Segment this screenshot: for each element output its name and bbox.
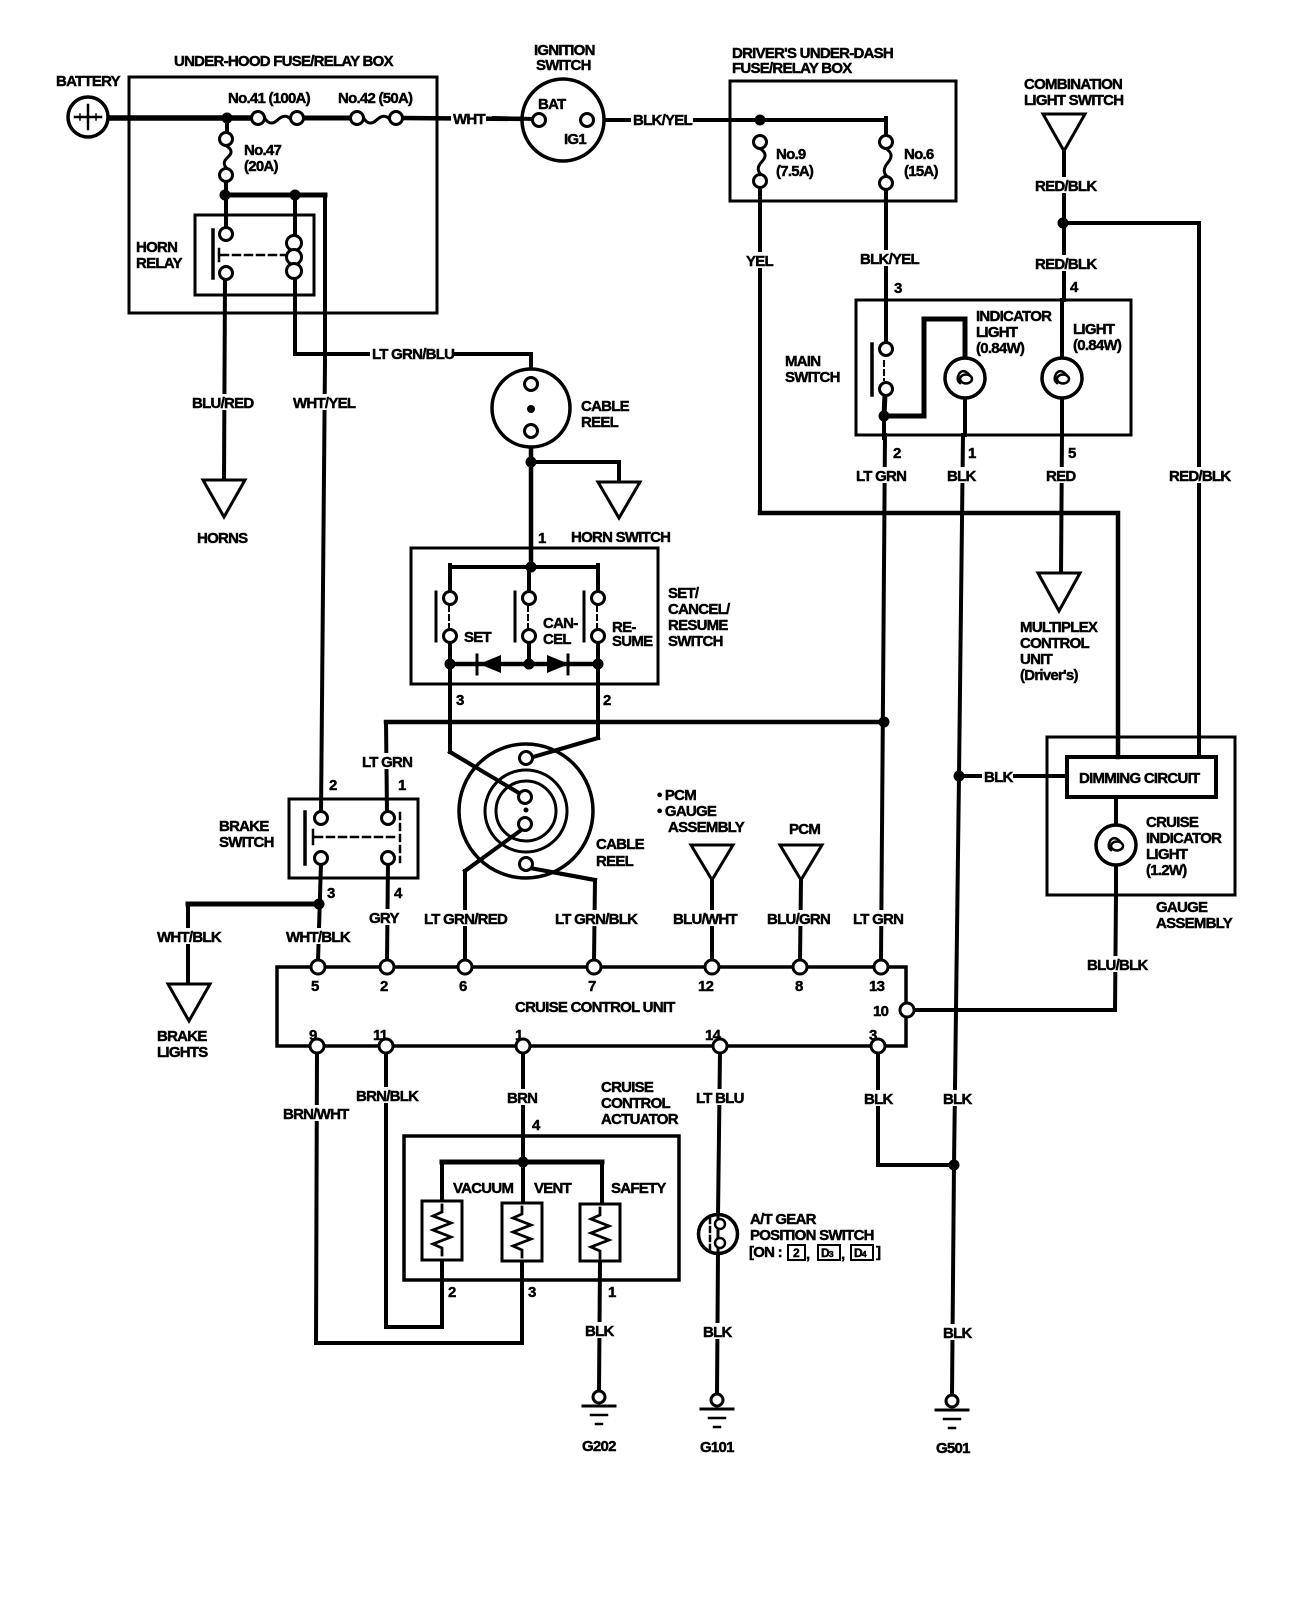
svg-text:GRY: GRY [369, 910, 399, 927]
svg-text:,: , [841, 1246, 845, 1263]
label RED/BLK upper [1033, 177, 1097, 195]
svg-text:3: 3 [869, 1027, 877, 1044]
junction RED/BLK combination switch tap [1058, 218, 1069, 229]
svg-text:BLU/BLK: BLU/BLK [1087, 957, 1148, 974]
wire LT GRN horizontal [386, 720, 884, 725]
svg-text:POSITION SWITCH: POSITION SWITCH [750, 1227, 874, 1244]
wire battery junction down to fuse No.47 [225, 116, 229, 134]
label BAT [538, 96, 566, 113]
svg-text:5: 5 [1068, 445, 1076, 462]
wire light to pin 5 [1060, 397, 1064, 435]
junction SET arrow bar [445, 659, 456, 670]
wire WHT fuse box to ignition BAT [402, 118, 533, 119]
svg-text:BLK: BLK [984, 769, 1013, 786]
label pin 4 main switch [1070, 279, 1079, 296]
svg-text:LT BLU: LT BLU [696, 1090, 744, 1107]
wire A/T gear position switch to G101 [717, 1252, 718, 1395]
label CANCEL/ [668, 601, 731, 618]
svg-text:D3: D3 [821, 1246, 834, 1260]
label RE- [612, 619, 636, 636]
label vacuum pin 2 [448, 1284, 456, 1301]
svg-text:2: 2 [380, 978, 388, 995]
label BRN/WHT [281, 1105, 349, 1123]
fuse No.41 (100A) [252, 112, 304, 125]
label PCM bullet [657, 787, 696, 804]
wire RED/BLK branch to dimming circuit [1063, 223, 1199, 757]
wire WHT/YEL to brake switch pin 2 [321, 195, 325, 815]
wire RED pin 5 to multiplex control unit [1061, 435, 1062, 574]
svg-text:9: 9 [309, 1027, 317, 1044]
RESUME switch contact [584, 592, 605, 643]
svg-text:A/T GEAR: A/T GEAR [750, 1211, 817, 1228]
svg-text:G501: G501 [936, 1440, 970, 1457]
svg-text:(7.5A): (7.5A) [776, 163, 814, 180]
label cruise pin 1 bottom [515, 1027, 523, 1044]
label BRAKE SWITCH [219, 818, 269, 835]
svg-text:4: 4 [394, 885, 403, 902]
wire feed to SAFETY solenoid [600, 1162, 604, 1205]
brake switch contact [305, 812, 400, 865]
svg-text:(0.84W): (0.84W) [976, 340, 1025, 357]
wire YEL to dimming circuit [760, 513, 1118, 757]
label WHT [451, 110, 486, 128]
horn switch connector [598, 482, 640, 518]
wire CANCEL contact to arrow bar [527, 641, 531, 666]
svg-text:UNDER-HOOD FUSE/RELAY BOX: UNDER-HOOD FUSE/RELAY BOX [174, 53, 394, 70]
under-hood fuse/relay box [129, 77, 437, 313]
junction CANCEL arrow bar [524, 659, 535, 670]
ignition switch [494, 79, 604, 161]
svg-text:BRN: BRN [507, 1090, 537, 1107]
wire LT GRN/BLU coil to cable reel [295, 276, 531, 381]
wire WHT/BLK down [186, 904, 190, 985]
wire LT GRN/RED diagonal [465, 828, 524, 871]
svg-text:REEL: REEL [581, 414, 619, 431]
label ACTUATOR [601, 1111, 679, 1128]
label No.42 (50A) [336, 89, 422, 107]
label SWITCH set/cancel [668, 633, 723, 650]
wire bus down to relay contact [224, 195, 228, 229]
wire set/cancel/resume feed bar [450, 565, 598, 569]
label DIMMING CIRCUIT [1079, 770, 1200, 787]
ground G101 [701, 1394, 733, 1427]
svg-text:LIGHT: LIGHT [1146, 846, 1188, 863]
svg-text:SWITCH: SWITCH [785, 369, 840, 386]
wire main switch pin 2 stub [882, 416, 886, 438]
svg-text:SUME: SUME [612, 633, 653, 650]
label RED/BLK right [1167, 467, 1231, 485]
junction BLK dimming circuit tap [954, 771, 965, 782]
svg-text:(1.2W): (1.2W) [1146, 862, 1187, 879]
label CONTROL actuator [601, 1095, 670, 1112]
wire LT GRN/BLK to cruise pin 7 [594, 880, 595, 961]
label POSITION SWITCH [750, 1227, 874, 1244]
label MULTIPLEX [1020, 619, 1098, 636]
cruise control actuator box [404, 1136, 679, 1280]
driver's under-dash fuse/relay box [730, 81, 956, 201]
label No.41 (100A) [226, 89, 318, 107]
label CRUISE actuator [601, 1079, 654, 1096]
brake switch box [289, 799, 418, 878]
label vent pin 3 [528, 1284, 536, 1301]
wire BLK pin 3 to G501 net [878, 1163, 954, 1167]
svg-text:• PCM: • PCM [657, 787, 696, 804]
label brake pin 4 [394, 885, 403, 902]
cruise control unit box [277, 967, 906, 1046]
svg-text:BLK: BLK [864, 1091, 893, 1108]
wire GRY brake switch pin 4 to cruise pin 2 [387, 863, 388, 961]
label BLU/RED [190, 394, 254, 412]
label G101 [700, 1439, 734, 1456]
svg-text:UNIT: UNIT [1020, 651, 1053, 668]
wire BLU/WHT to cruise pin 12 [710, 880, 714, 961]
svg-text:LIGHT SWITCH: LIGHT SWITCH [1024, 92, 1123, 109]
label fuse No.9 [776, 146, 806, 163]
label INDICATOR LIGHT rating [974, 339, 1032, 357]
label horn switch pin 1 [538, 530, 546, 547]
label HORN RELAY 2 [136, 255, 182, 272]
label main switch pin 2 [893, 445, 901, 462]
junction set/cancel/resume feed [526, 562, 537, 573]
label PCM [789, 821, 820, 838]
svg-text:IG1: IG1 [564, 131, 586, 148]
svg-text:WHT/YEL: WHT/YEL [293, 395, 356, 412]
svg-text:WHT/BLK: WHT/BLK [157, 929, 222, 946]
svg-text:12: 12 [698, 978, 714, 995]
horn relay contact [213, 228, 285, 280]
wire YEL fuse No.9 down [758, 187, 762, 513]
label G501 [936, 1440, 970, 1457]
junction WHT/BLK brake lights tap [314, 899, 325, 910]
svg-text:(15A): (15A) [904, 163, 939, 180]
svg-text:CRUISE: CRUISE [601, 1079, 654, 1096]
svg-text:2: 2 [329, 777, 337, 794]
svg-text:BLK/YEL: BLK/YEL [633, 112, 693, 129]
wire RESUME pin 2 diagonal to cable reel [533, 738, 598, 757]
svg-text:ASSEMBLY: ASSEMBLY [1156, 915, 1233, 932]
svg-text:RED/BLK: RED/BLK [1169, 468, 1231, 485]
label cruise pin 7 [588, 978, 596, 995]
label G202 [582, 1438, 616, 1455]
wire BLK cruise pin 3 down [876, 1052, 880, 1165]
label BLK pin 3 [862, 1090, 893, 1108]
svg-text:LT GRN/BLU: LT GRN/BLU [372, 346, 454, 363]
junction main switch contact output [879, 411, 890, 422]
cruise control unit pins [310, 960, 914, 1053]
label LIGHT SWITCH [1024, 92, 1123, 109]
label fuse No.6 [904, 146, 934, 163]
label BRN/BLK [354, 1087, 419, 1105]
set/cancel/resume switch box [411, 548, 658, 684]
label WHT/BLK left [155, 928, 222, 946]
battery [68, 97, 108, 137]
svg-text:LT GRN: LT GRN [853, 911, 903, 928]
label BLK dimming [982, 768, 1013, 786]
svg-text:• GAUGE: • GAUGE [657, 803, 717, 820]
label UNDER-HOOD FUSE/RELAY BOX [172, 52, 394, 70]
label HORN RELAY [136, 239, 177, 256]
svg-text:2: 2 [893, 445, 901, 462]
label INDICATOR [1146, 830, 1222, 847]
cable reel upper [492, 369, 570, 447]
svg-text:2: 2 [448, 1284, 456, 1301]
label LT GRN/BLU [370, 345, 454, 363]
junction BRN actuator feed [518, 1157, 529, 1168]
svg-text:VACUUM: VACUUM [453, 1180, 513, 1197]
svg-text:No.41 (100A): No.41 (100A) [228, 90, 311, 107]
svg-text:BRAKE: BRAKE [157, 1028, 207, 1045]
svg-text:SWITCH: SWITCH [668, 633, 723, 650]
svg-text:2: 2 [603, 692, 611, 709]
svg-text:LT GRN/BLK: LT GRN/BLK [555, 911, 638, 928]
PCM / gauge assembly connector [691, 845, 733, 880]
horn relay box [195, 215, 314, 295]
wire cable reel to horn switch junction [529, 437, 534, 570]
svg-text:INDICATOR: INDICATOR [1146, 830, 1222, 847]
svg-text:RELAY: RELAY [136, 255, 182, 272]
label UNIT multiplex [1020, 651, 1053, 668]
svg-text:No.42 (50A): No.42 (50A) [338, 90, 413, 107]
svg-text:CAN-: CAN- [543, 615, 578, 632]
label cruise pin 2 [380, 978, 388, 995]
label main switch pin 5 [1068, 445, 1076, 462]
svg-text:8: 8 [795, 978, 803, 995]
svg-text:RESUME: RESUME [668, 617, 728, 634]
label GAUGE bullet [657, 803, 717, 820]
svg-text:BLK/YEL: BLK/YEL [860, 251, 920, 268]
svg-text:HORN: HORN [136, 239, 177, 256]
svg-text:ASSEMBLY: ASSEMBLY [668, 819, 745, 836]
svg-text:1: 1 [608, 1284, 616, 1301]
svg-text:11: 11 [373, 1027, 388, 1044]
wire BRN/WHT cruise pin 9 down [316, 1052, 317, 1343]
svg-text:BLU/RED: BLU/RED [192, 395, 254, 412]
label CRUISE CONTROL UNIT [515, 999, 675, 1016]
svg-text:1: 1 [515, 1027, 523, 1044]
wire arrow bar [450, 662, 598, 667]
label RED [1044, 467, 1076, 485]
svg-text:BRN/WHT: BRN/WHT [283, 1106, 349, 1123]
svg-text:WHT: WHT [453, 111, 485, 128]
label cruise pin 10 [873, 1003, 889, 1020]
wire to SET contact [448, 565, 452, 593]
wire BLK down to G501 [952, 1165, 954, 1396]
wire LT BLU cruise pin 14 to A/T gear position switch [718, 1052, 720, 1216]
svg-text:CONTROL: CONTROL [1020, 635, 1089, 652]
label fuse No.9 rating [776, 163, 814, 180]
label cruise pin 13 [869, 978, 885, 995]
label CABLE REEL lower 2 [596, 853, 634, 870]
svg-text:CRUISE CONTROL UNIT: CRUISE CONTROL UNIT [515, 999, 675, 1016]
wire relay contact to horns BLU/RED [224, 279, 225, 480]
label VENT [532, 1179, 573, 1197]
label cruise pin 12 [698, 978, 714, 995]
svg-text:13: 13 [869, 978, 885, 995]
svg-text:CEL: CEL [543, 631, 571, 648]
svg-text:CONTROL: CONTROL [601, 1095, 670, 1112]
label pin 3 main switch [894, 280, 902, 297]
junction LT GRN at pin 13 riser [879, 717, 890, 728]
wire BLK/YEL fuse No.6 to main switch pin 3 [884, 189, 888, 344]
label BLU/WHT [671, 910, 737, 928]
wire dimming circuit to cruise indicator light [1114, 797, 1118, 826]
label GRY [367, 909, 399, 927]
svg-text:LIGHT: LIGHT [1073, 321, 1115, 338]
wire LT GRN main switch pin 2 to cruise pin 13 [881, 435, 885, 961]
label LT GRN brake [360, 753, 413, 771]
horn relay coil [287, 236, 302, 279]
svg-text:(Driver's): (Driver's) [1020, 667, 1079, 684]
svg-text:No.9: No.9 [776, 146, 806, 163]
svg-text:(0.84W): (0.84W) [1073, 337, 1122, 354]
wire indicator light to pin 1 BLK [963, 397, 967, 435]
svg-text:MULTIPLEX: MULTIPLEX [1020, 619, 1098, 636]
svg-text:RED/BLK: RED/BLK [1035, 178, 1097, 195]
svg-text:(20A): (20A) [244, 158, 279, 175]
svg-text:G101: G101 [700, 1439, 734, 1456]
light bulb [1042, 358, 1082, 398]
wire LT GRN down to brake switch pin 1 [386, 722, 387, 813]
label cruise pin 3 bottom [869, 1027, 877, 1044]
svg-text:LIGHT: LIGHT [976, 324, 1018, 341]
svg-text:No.47: No.47 [244, 142, 282, 159]
wire coil feed down [293, 195, 297, 236]
label LIGHT cruise [1146, 846, 1188, 863]
svg-text:]: ] [876, 1244, 881, 1261]
svg-text:RED/BLK: RED/BLK [1035, 256, 1097, 273]
wire WHT battery feed [106, 115, 252, 121]
label BLU/BLK [1085, 956, 1148, 974]
wire BLK branch to dimming circuit [959, 774, 1067, 778]
SAFETY solenoid [580, 1204, 620, 1261]
svg-text:COMBINATION: COMBINATION [1024, 76, 1122, 93]
svg-text:14: 14 [705, 1027, 722, 1044]
label main switch pin 1 [968, 445, 976, 462]
svg-text:3: 3 [528, 1284, 536, 1301]
svg-text:10: 10 [873, 1003, 889, 1020]
wire BRN/BLK cruise pin 11 down [384, 1052, 388, 1327]
svg-text:6: 6 [459, 978, 467, 995]
label A/T gear ON positions [749, 1244, 881, 1263]
label WHT/YEL [291, 394, 357, 412]
label LIGHT [1071, 320, 1115, 338]
wire to CANCEL contact [527, 567, 531, 593]
svg-text:3: 3 [894, 280, 902, 297]
svg-text:SWITCH: SWITCH [536, 57, 591, 74]
wire SET contact to arrow bar [448, 641, 452, 666]
label WHT/BLK [284, 928, 351, 946]
wire RESUME contact to arrow bar [596, 641, 600, 666]
svg-text:WHT/BLK: WHT/BLK [286, 929, 351, 946]
label BLK main switch [945, 467, 976, 485]
label MAIN SWITCH 2 [785, 369, 840, 386]
label IGNITION SWITCH 2 [536, 57, 591, 74]
svg-text:BLK: BLK [947, 468, 976, 485]
label resume pin 2 [603, 692, 611, 709]
svg-text:BLU/WHT: BLU/WHT [673, 911, 737, 928]
label SAFETY [609, 1179, 667, 1197]
wire BLU/BLK to cruise pin 10 [914, 895, 1116, 1010]
label BLU/GRN [765, 910, 830, 928]
label HORN SWITCH [571, 529, 670, 546]
label fuse No.47 [242, 141, 287, 159]
VACUUM solenoid [422, 1201, 462, 1260]
PCM connector [780, 845, 822, 880]
svg-text:HORN SWITCH: HORN SWITCH [571, 529, 670, 546]
label LIGHT rating [1071, 336, 1129, 354]
svg-text:CANCEL/: CANCEL/ [668, 601, 731, 618]
fuse No.47 (20A) [220, 133, 233, 182]
ground G202 [583, 1391, 615, 1424]
label cruise pin 14 bottom [705, 1027, 722, 1044]
label BRN [505, 1089, 537, 1107]
svg-text:No.6: No.6 [904, 146, 934, 163]
wire to RESUME contact [596, 565, 600, 593]
svg-text:BLK: BLK [943, 1325, 972, 1342]
CANCEL switch contact [515, 592, 536, 643]
gauge assembly box [1047, 737, 1235, 895]
svg-text:HORNS: HORNS [197, 530, 248, 547]
svg-text:BLK: BLK [703, 1324, 732, 1341]
label cruise pin 6 [459, 978, 467, 995]
label COMBINATION [1024, 76, 1122, 93]
main switch contact [872, 343, 893, 396]
label DRIVER'S UNDER-DASH [732, 45, 893, 62]
label CAN- [543, 615, 578, 632]
label CABLE REEL upper 2 [581, 414, 619, 431]
label actuator pin 4 [532, 1117, 541, 1134]
label CRUISE indicator [1146, 814, 1199, 831]
fuse No.6 (15A) [880, 136, 893, 190]
svg-text:3: 3 [456, 692, 464, 709]
label SUME [612, 633, 653, 650]
label GAUGE ASSEMBLY [1156, 899, 1208, 916]
svg-text:LT GRN: LT GRN [362, 754, 412, 771]
label BRAKE SWITCH 2 [219, 834, 274, 851]
svg-text:4: 4 [532, 1117, 541, 1134]
label BRAKE LIGHTS 2 [157, 1044, 208, 1061]
VENT solenoid [502, 1203, 542, 1261]
svg-text:,: , [806, 1246, 810, 1263]
label safety pin 1 [608, 1284, 616, 1301]
svg-text:3: 3 [327, 885, 335, 902]
label ASSEMBLY bullet [668, 819, 745, 836]
wire BLK main switch pin 1 down [954, 435, 963, 1165]
wire RESUME pin 2 down [596, 664, 600, 738]
label IG1 [564, 131, 586, 148]
wire BLK/YEL ignition IG1 to under-dash box [593, 118, 886, 122]
svg-text:CRUISE: CRUISE [1146, 814, 1199, 831]
label cruise pin 11 bottom [373, 1027, 388, 1044]
svg-text:FUSE/RELAY BOX: FUSE/RELAY BOX [732, 60, 852, 77]
wire SET pin 3 diagonal to cable reel [450, 752, 524, 796]
label brake pin 2 [329, 777, 337, 794]
svg-text:LT GRN/RED: LT GRN/RED [424, 911, 508, 928]
svg-text:4: 4 [1070, 279, 1079, 296]
label BLK/YEL fuse 6 [858, 250, 920, 268]
cable reel lower [450, 738, 598, 880]
label BLK g101 [701, 1323, 732, 1341]
svg-text:GAUGE: GAUGE [1156, 899, 1208, 916]
svg-text:7: 7 [588, 978, 596, 995]
label fuse No.47 rating [242, 157, 283, 175]
junction relay bus left [220, 190, 231, 201]
svg-text:BRAKE: BRAKE [219, 818, 269, 835]
main switch box [856, 300, 1131, 435]
svg-text:YEL: YEL [746, 253, 774, 270]
svg-text:BATTERY: BATTERY [56, 73, 121, 90]
svg-text:PCM: PCM [789, 821, 820, 838]
